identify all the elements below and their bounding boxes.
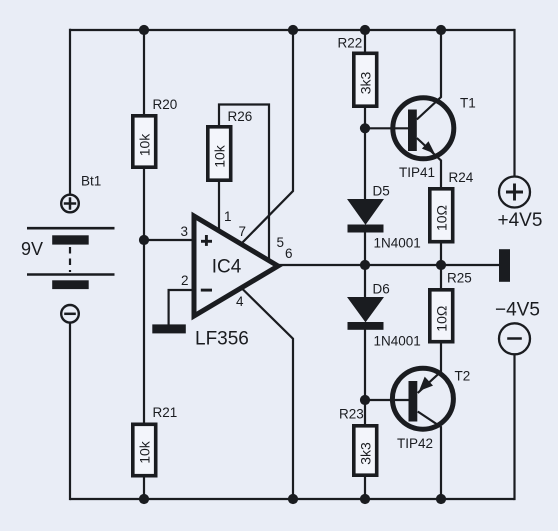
resistor R22 — [338, 36, 379, 109]
svg-text:10k: 10k — [137, 133, 153, 157]
wire R26 bottom to pin 1 — [218, 181, 220, 232]
wire R22 top — [364, 30, 366, 53]
battery Bt1 — [21, 174, 115, 323]
node noninverting input — [139, 235, 149, 245]
svg-text:10k: 10k — [212, 144, 228, 168]
svg-text:10Ω: 10Ω — [434, 306, 450, 332]
wire R22 bottom to T1 base node — [364, 107, 366, 129]
wire V+ supply to pin 7 — [241, 30, 293, 244]
resistor R21 — [131, 405, 177, 478]
terminal +4V5 — [498, 177, 543, 232]
wire R26 top bracket to pin 5 — [219, 105, 269, 262]
ground at output divider — [499, 249, 510, 282]
wire inverting input pin 2 to ground — [169, 290, 194, 325]
transistor Q1 T1 — [393, 96, 476, 181]
node junction top rail R20 — [139, 25, 149, 35]
wire left column below battery — [69, 322, 71, 500]
wire pin 4 to V- supply — [241, 288, 293, 500]
svg-text:T1: T1 — [460, 96, 476, 111]
svg-text:R21: R21 — [153, 405, 178, 420]
wire T2 collector — [418, 412, 441, 500]
svg-text:LF356: LF356 — [195, 329, 249, 350]
svg-text:Bt1: Bt1 — [81, 174, 101, 189]
wire R24 bottom to ground node — [440, 243, 442, 266]
svg-text:TIP42: TIP42 — [397, 436, 433, 451]
wire T1 base node to D5 — [364, 128, 366, 201]
node output — [360, 260, 370, 270]
svg-text:3: 3 — [180, 224, 188, 239]
svg-text:9V: 9V — [21, 239, 43, 259]
svg-text:R23: R23 — [339, 407, 364, 422]
svg-text:D5: D5 — [373, 184, 390, 199]
wire R20 top — [143, 30, 145, 115]
svg-text:IC4: IC4 — [212, 256, 242, 277]
svg-text:2: 2 — [181, 273, 189, 288]
ground at op-amp pin 2 — [152, 324, 186, 333]
wire T1 emitter to R24 — [417, 138, 441, 188]
wire bottom rail — [70, 498, 515, 500]
node T1 base — [360, 123, 370, 133]
wire right column from -4V5 — [513, 354, 515, 500]
wire R25 bottom to T2 emitter — [418, 343, 441, 394]
wire noninverting input pin 3 — [144, 239, 194, 241]
svg-text:1N4001: 1N4001 — [374, 236, 421, 251]
node junction bottom rail R23 — [360, 494, 370, 504]
diode D6 — [348, 282, 421, 349]
node junction top rail V+ — [288, 25, 298, 35]
svg-text:R20: R20 — [153, 97, 178, 112]
svg-text:3k3: 3k3 — [358, 442, 374, 465]
svg-text:3k3: 3k3 — [358, 72, 374, 95]
resistor R24 — [428, 170, 474, 244]
wire op-amp output pin 6 — [276, 264, 500, 266]
svg-text:T2: T2 — [455, 369, 471, 384]
wire T1 base — [365, 127, 408, 129]
svg-text:1: 1 — [224, 209, 232, 224]
wire D6 cathode to T2 base node — [364, 329, 366, 400]
node junction top rail T1 collector — [436, 25, 446, 35]
node junction bottom rail R21 — [139, 494, 149, 504]
wire left column above battery — [69, 29, 71, 196]
svg-text:−4V5: −4V5 — [495, 300, 540, 321]
node R24 R25 ground — [436, 260, 446, 270]
svg-text:TIP41: TIP41 — [399, 165, 435, 180]
svg-text:6: 6 — [285, 246, 293, 261]
wire T2 base — [365, 399, 409, 401]
svg-text:10Ω: 10Ω — [434, 205, 450, 231]
node junction bottom rail T2 collector — [436, 494, 446, 504]
wire top rail — [70, 29, 515, 31]
wire output node to D6 anode — [364, 265, 366, 299]
svg-text:R26: R26 — [228, 109, 253, 124]
terminal -4V5 — [495, 300, 540, 355]
svg-text:4: 4 — [236, 294, 244, 309]
node junction top rail R22 — [360, 25, 370, 35]
svg-text:R22: R22 — [338, 36, 363, 51]
node T2 base — [360, 395, 370, 405]
wire D5 cathode to output node — [364, 232, 366, 265]
node junction bottom rail V- — [288, 494, 298, 504]
transistor Q2 T2 — [392, 368, 470, 451]
svg-text:10k: 10k — [137, 440, 153, 464]
diode D5 — [348, 184, 421, 251]
wire R21 bottom — [143, 477, 145, 500]
resistor R25 — [428, 271, 472, 344]
op-amp U1 IC4 triangle — [194, 216, 278, 350]
svg-text:5: 5 — [277, 235, 285, 250]
wire T2 base node to R23 — [364, 400, 366, 425]
wire R20 bottom to node — [143, 168, 145, 241]
svg-text:7: 7 — [239, 224, 247, 239]
resistor R20 — [131, 97, 177, 169]
resistor R26 — [206, 109, 252, 182]
svg-text:R24: R24 — [449, 170, 474, 185]
wire ground node to R25 — [440, 265, 442, 289]
svg-text:R25: R25 — [447, 271, 472, 286]
wire R23 bottom — [364, 476, 366, 500]
wire node to R21 — [143, 239, 145, 424]
wire right column to +4V5 — [513, 29, 515, 177]
wire T1 collector — [417, 30, 441, 120]
svg-text:+4V5: +4V5 — [498, 210, 543, 231]
svg-text:D6: D6 — [373, 282, 390, 297]
resistor R23 — [339, 407, 379, 478]
svg-text:1N4001: 1N4001 — [374, 334, 421, 349]
